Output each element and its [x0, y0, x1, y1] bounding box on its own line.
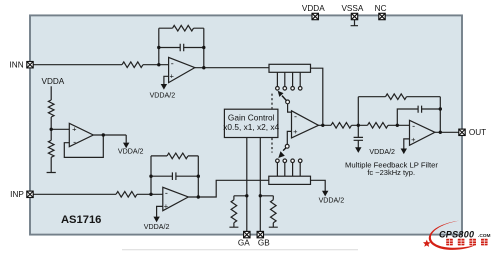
svg-text:VDDA/2: VDDA/2: [319, 196, 345, 204]
svg-text:VSSA: VSSA: [341, 4, 363, 13]
svg-text:VDDA/2: VDDA/2: [118, 147, 144, 155]
svg-text:VDDA/2: VDDA/2: [144, 223, 170, 231]
svg-text:+: +: [411, 135, 416, 144]
svg-text:+: +: [170, 72, 175, 81]
svg-text:GA: GA: [238, 238, 250, 247]
svg-text:-: -: [165, 188, 168, 198]
svg-text:AS1716: AS1716: [61, 214, 101, 226]
svg-text:INP: INP: [10, 190, 24, 199]
svg-text:VDDA/2: VDDA/2: [369, 148, 395, 156]
svg-text:OUT: OUT: [469, 128, 486, 137]
svg-text:-: -: [294, 111, 297, 121]
svg-text:GB: GB: [258, 238, 270, 247]
svg-text:+: +: [72, 124, 77, 133]
svg-text:-: -: [171, 58, 174, 68]
svg-text:fc ~23kHz typ.: fc ~23kHz typ.: [367, 168, 415, 177]
svg-text:VDDA: VDDA: [42, 77, 65, 86]
svg-text:+: +: [293, 127, 298, 136]
svg-text:-: -: [73, 137, 76, 147]
svg-text:NC: NC: [375, 4, 387, 13]
svg-text:x0.5, x1, x2, x4: x0.5, x1, x2, x4: [223, 122, 279, 132]
svg-text:INN: INN: [10, 61, 24, 70]
svg-text:+: +: [164, 202, 169, 211]
svg-text:Gain Control: Gain Control: [228, 112, 275, 122]
svg-text:CPS800: CPS800: [439, 229, 474, 239]
svg-text:VDDA: VDDA: [302, 4, 325, 13]
svg-text:VDDA/2: VDDA/2: [150, 92, 176, 100]
svg-text:.COM: .COM: [478, 233, 491, 239]
svg-text:-: -: [412, 121, 415, 131]
